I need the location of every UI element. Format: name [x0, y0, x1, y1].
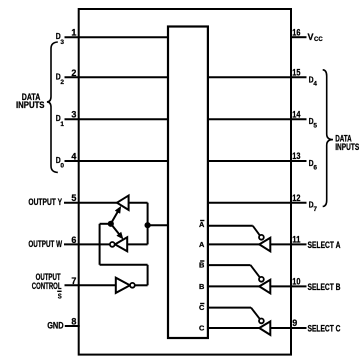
svg-text:8: 8	[71, 317, 76, 327]
svg-text:7: 7	[313, 206, 317, 213]
svg-text:12: 12	[292, 193, 300, 203]
svg-text:B: B	[199, 260, 204, 269]
svg-text:16: 16	[292, 27, 300, 37]
svg-text:S: S	[58, 291, 62, 300]
svg-text:5: 5	[71, 193, 76, 203]
svg-text:INPUTS: INPUTS	[335, 142, 359, 152]
svg-text:4: 4	[71, 152, 76, 162]
svg-text:3: 3	[60, 39, 64, 46]
svg-text:2: 2	[60, 79, 64, 86]
svg-text:5: 5	[313, 123, 317, 130]
svg-text:3: 3	[71, 110, 76, 120]
svg-text:A: A	[199, 240, 205, 249]
svg-text:INPUTS: INPUTS	[16, 100, 45, 110]
svg-text:B: B	[199, 282, 204, 291]
svg-text:4: 4	[313, 81, 317, 88]
svg-text:CC: CC	[314, 37, 323, 43]
svg-text:A: A	[199, 220, 205, 229]
svg-text:C: C	[199, 303, 205, 312]
svg-text:13: 13	[292, 151, 300, 161]
svg-text:1: 1	[71, 28, 76, 38]
svg-text:C: C	[199, 323, 205, 332]
svg-text:SELECT A: SELECT A	[308, 240, 341, 250]
svg-text:14: 14	[292, 109, 300, 119]
svg-text:15: 15	[292, 68, 300, 78]
svg-text:GND: GND	[47, 321, 63, 331]
svg-text:SELECT C: SELECT C	[308, 324, 341, 334]
svg-text:6: 6	[71, 235, 76, 245]
svg-text:CONTROL: CONTROL	[32, 281, 62, 291]
svg-text:V: V	[308, 32, 314, 42]
svg-text:6: 6	[313, 164, 317, 171]
svg-text:OUTPUT W: OUTPUT W	[28, 239, 62, 249]
svg-text:0: 0	[60, 163, 64, 170]
svg-text:11: 11	[292, 235, 300, 245]
svg-text:7: 7	[71, 276, 76, 286]
svg-text:10: 10	[292, 277, 300, 287]
svg-text:2: 2	[71, 68, 76, 78]
svg-text:9: 9	[292, 318, 297, 328]
svg-text:SELECT B: SELECT B	[308, 282, 341, 292]
svg-text:1: 1	[60, 121, 64, 128]
svg-text:OUTPUT Y: OUTPUT Y	[28, 197, 62, 207]
